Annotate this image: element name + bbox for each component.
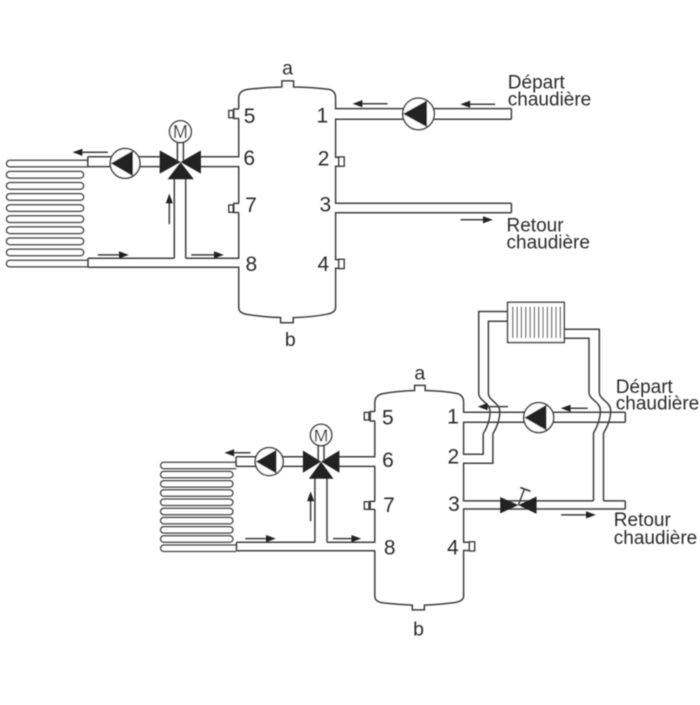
arrow right under retour2 [561, 511, 596, 518]
arrow left above radiator supply (T1) [73, 149, 108, 156]
tank T2 outline (with port gaps) [375, 385, 464, 610]
pipe radiator2 return to port 8 (T2) [237, 542, 376, 551]
port 7 stub T2 [364, 501, 375, 509]
arrow up beside valve V1 drop [166, 194, 173, 225]
pump P1b (boiler circuit T1) [403, 98, 435, 130]
pipe depart chaudiere (T2 port 1) [463, 412, 625, 422]
valve V1 three-way [160, 150, 201, 179]
crossing hop left leg over depart pipe [479, 394, 500, 434]
pump P2b (boiler circuit T2) [524, 403, 554, 433]
port 4 stub T2 [463, 542, 475, 551]
svg-text:6: 6 [243, 147, 255, 170]
actuator M1 [170, 121, 192, 143]
svg-text:1: 1 [447, 406, 459, 429]
arrow right on return2 left [245, 535, 276, 542]
svg-text:chaudière: chaudière [508, 89, 591, 110]
svg-text:7: 7 [383, 494, 395, 517]
svg-text:M: M [173, 122, 188, 142]
pump P2a (radiator circuit T2) [255, 448, 283, 476]
pipe radiator to pump P1 to valve V1 [88, 157, 161, 167]
port 2 stub T1 [335, 157, 344, 166]
arrow right on return pipe left (T1) [98, 251, 129, 258]
pipe left leg to port 2 (T2) [463, 434, 493, 463]
valve V2 three-way [303, 451, 340, 479]
pipe valve V2 drop [315, 476, 327, 542]
svg-text:8: 8 [245, 253, 257, 276]
svg-text:2: 2 [447, 446, 459, 469]
actuator M2 [310, 424, 331, 445]
port 5 stub T1 [229, 109, 239, 119]
arrow left between tank and pump P1b [353, 100, 388, 107]
pipe valve V1 drop [174, 179, 185, 258]
svg-text:b: b [285, 329, 296, 351]
svg-text:5: 5 [244, 105, 256, 128]
svg-text:5: 5 [382, 407, 394, 430]
valve V2 actuator stem [318, 445, 324, 461]
arrow up beside valve V2 drop [307, 491, 314, 521]
svg-text:b: b [413, 619, 424, 641]
svg-text:4: 4 [318, 253, 330, 276]
pipe radiator2 to pump P2a to valve V2 [236, 457, 304, 467]
svg-text:2: 2 [318, 148, 330, 171]
svg-text:chaudière: chaudière [616, 394, 699, 415]
svg-text:6: 6 [382, 449, 394, 472]
valve V1 actuator stem [177, 142, 183, 161]
radiator coil RAD1 [6, 160, 88, 267]
arrow left on depart2 left of pump [478, 403, 508, 410]
pipe radiator panel right leg [564, 329, 599, 392]
port number digits T2 [382, 406, 460, 560]
port 5 stub T2 [364, 412, 375, 422]
pipe radiator return to port 8 (T1) [88, 258, 239, 267]
svg-text:chaudière: chaudière [507, 232, 590, 253]
radiator panel R2 [508, 302, 565, 342]
pipe valve V2 to port 6 (T2) [339, 457, 376, 467]
pipe port1 to Depart chaudiere (T1) [335, 109, 512, 120]
label Retour chaudiere (bottom) [614, 510, 697, 549]
pipe right leg down to retour (T2) [594, 433, 604, 501]
svg-text:M: M [314, 425, 329, 445]
svg-text:4: 4 [447, 537, 459, 560]
tank T1 outline (with port gaps) [239, 81, 336, 323]
port number digits T1 [243, 105, 331, 277]
svg-text:a: a [282, 58, 293, 80]
label Depart chaudiere (bottom) [616, 377, 699, 415]
svg-text:3: 3 [320, 193, 332, 216]
label Depart chaudiere (top) [508, 73, 591, 111]
arrow right on return2 right [333, 535, 361, 542]
arrow right under retour pipe (T1) [461, 216, 493, 223]
port 7 stub T1 [229, 203, 239, 212]
port 4 stub T1 [335, 259, 344, 268]
svg-text:1: 1 [317, 105, 329, 128]
svg-text:3: 3 [448, 493, 460, 516]
svg-text:chaudière: chaudière [614, 528, 697, 549]
arrow left on depart2 right of pump [561, 405, 588, 412]
svg-text:a: a [414, 363, 425, 385]
label Retour chaudiere (top) [507, 216, 590, 254]
svg-text:8: 8 [384, 537, 396, 560]
pipe radiator panel left leg [479, 312, 508, 394]
crossing hop right leg over depart pipe [589, 393, 611, 434]
svg-text:7: 7 [245, 194, 257, 217]
pipe valve V1 to port 6 (T1) [200, 157, 239, 167]
arrow left right of pump P1b [460, 101, 495, 108]
radiator coil RAD2 [161, 462, 237, 551]
valve V3 on retour (T2) [500, 488, 536, 514]
pipe retour chaudiere (T2 port 3) [463, 501, 625, 509]
pump P1a (radiator circuit T1) [110, 149, 140, 179]
arrow right on return pipe right (T1) [191, 251, 224, 258]
arrow left above radiator2 supply [224, 449, 250, 456]
pipe port3 Retour chaudiere (T1) [335, 203, 512, 213]
